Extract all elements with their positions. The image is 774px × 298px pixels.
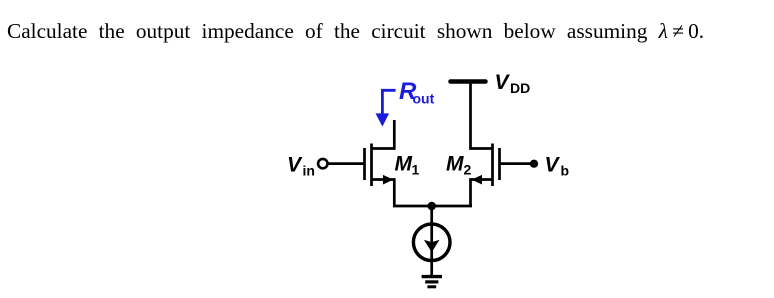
svg-text:M: M	[446, 152, 464, 175]
label Vin	[287, 153, 315, 178]
svg-text:2: 2	[464, 161, 472, 177]
VDD supply bar	[451, 79, 486, 84]
label Rout	[399, 78, 435, 107]
svg-text:1: 1	[412, 161, 420, 177]
label M2	[446, 152, 472, 177]
current source I1	[413, 224, 450, 261]
label Vb	[545, 153, 570, 178]
svg-text:M: M	[395, 152, 413, 175]
wire tail through current source to ground	[430, 206, 433, 277]
input terminal Vin	[318, 159, 327, 168]
terminal dot Vb	[530, 160, 538, 168]
wire common source node (tail)	[393, 205, 472, 208]
junction dot tail node	[427, 202, 436, 211]
transistor M1	[365, 120, 395, 206]
ground	[422, 277, 442, 287]
problem statement text	[7, 21, 704, 42]
svg-text:V: V	[495, 71, 511, 94]
svg-text:out: out	[413, 91, 435, 107]
transistor M2	[471, 82, 500, 206]
svg-text:DD: DD	[510, 80, 530, 96]
svg-text:V: V	[287, 153, 303, 176]
wire M2 gate to Vb	[500, 162, 535, 165]
label VDD	[495, 71, 531, 96]
svg-text:V: V	[545, 153, 561, 176]
svg-text:b: b	[561, 162, 570, 178]
wire Vin to M1 gate	[328, 162, 365, 165]
label M1	[395, 152, 420, 177]
Rout probe arrow	[376, 90, 396, 126]
svg-text:in: in	[303, 162, 315, 178]
